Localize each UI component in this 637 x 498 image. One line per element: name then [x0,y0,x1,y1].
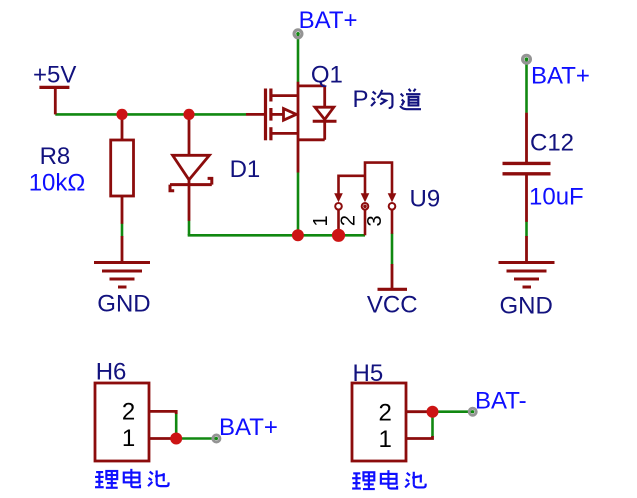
resistor R8 [111,114,134,223]
svg-text:10uF: 10uF [529,183,584,210]
wire: U9 pin3 to VCC [391,233,394,264]
svg-text:1: 1 [310,215,332,226]
wire: H5 junction to BAT- anchor [433,410,473,413]
U9 pin2 circle [362,203,369,210]
svg-text:10kΩ: 10kΩ [29,169,86,196]
ground GND left [94,236,150,287]
svg-text:BAT+: BAT+ [219,414,278,441]
wire: R8 bottom to GND [121,224,124,237]
svg-text:GND: GND [97,291,150,318]
wire: drain net horizontal [189,235,365,236]
svg-text:2: 2 [379,399,392,426]
wire: main +5V net horizontal [55,113,246,116]
junction dot drain net at U9 pin1 [332,229,345,242]
svg-text:+5V: +5V [33,62,76,89]
wire: H6 pin2 loop down [175,413,178,439]
junction dot drain net at Q1 [292,229,304,241]
ground GND right [499,236,555,287]
svg-text:R8: R8 [40,143,71,170]
capacitor C12 [503,113,551,222]
transistor Q1 P-MOSFET [246,82,337,173]
svg-text:U9: U9 [410,186,441,213]
wire: H6 junction to BAT+ anchor [176,437,216,440]
svg-text:1: 1 [379,426,392,453]
svg-text:BAT-: BAT- [475,388,527,415]
wire: H5 pin1 loop up [431,412,434,437]
value 锂电池 H5 [352,472,375,489]
connector H5 [352,383,433,461]
wire: C12 bottom to GND [525,221,528,236]
zener diode D1 [170,114,212,220]
char 道 [400,89,421,109]
svg-text:C12: C12 [530,130,574,157]
connector H6 [95,383,176,461]
svg-text:3: 3 [364,215,386,226]
junction dot on +5V net at D1 [183,109,194,120]
svg-text:BAT+: BAT+ [299,7,358,34]
svg-text:GND: GND [500,293,553,320]
junction dot H5 pin2 [427,406,439,418]
svg-text:1: 1 [122,425,135,452]
U9 pin stubs [339,210,393,236]
svg-text:H5: H5 [353,360,384,387]
wire: D1 bottom vertical [188,220,191,235]
net anchor BAT+ top [296,32,300,36]
junction dot H6 pin1 [170,433,182,445]
power flag VCC [378,264,408,289]
wire: Q1 bottom to drain net [297,172,300,235]
connector U9 [339,163,393,194]
svg-text:VCC: VCC [367,292,418,319]
U9 arrowhead pin2 [361,193,370,202]
junction dot on +5V net at R8 [116,109,127,120]
value 锂电池 H6 [95,471,118,488]
U9 pin1 circle [335,203,342,210]
power flag +5V [39,87,69,114]
svg-text:2: 2 [337,215,359,226]
U9 arrowhead pin1 [334,193,343,202]
wire: BAT+ to C12 top [525,59,528,113]
svg-text:H6: H6 [96,359,127,386]
net anchor BAT- H5 [471,410,474,413]
wire: BAT+ to Q1 top [297,34,300,82]
U9 pin3 circle [389,203,396,210]
svg-text:P: P [353,86,369,113]
U9 arrowhead pin3 [388,193,397,202]
net anchor BAT+ C12 [525,57,529,61]
svg-text:Q1: Q1 [311,61,343,88]
svg-text:2: 2 [122,399,135,426]
net anchor BAT+ H6 [215,437,218,440]
char 沟 [371,90,392,108]
svg-text:BAT+: BAT+ [531,63,590,90]
svg-text:D1: D1 [230,156,261,183]
